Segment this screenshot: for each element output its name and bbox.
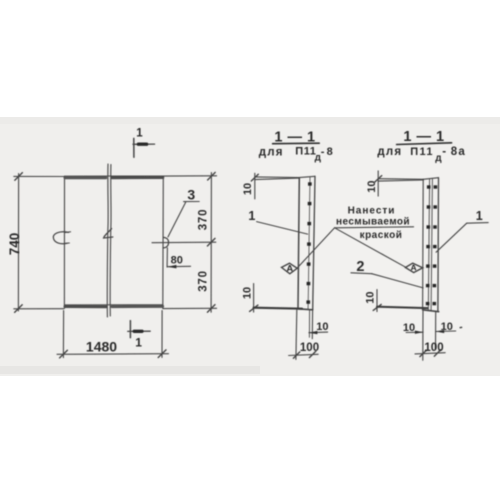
svg-text:1: 1 bbox=[136, 128, 143, 140]
svg-text:1: 1 bbox=[135, 335, 142, 349]
svg-text:100: 100 bbox=[300, 342, 319, 354]
svg-text:10: 10 bbox=[403, 322, 415, 334]
svg-text:краской: краской bbox=[360, 230, 403, 241]
svg-text:100: 100 bbox=[424, 342, 443, 354]
svg-text:для: для bbox=[259, 146, 284, 158]
svg-text:A: A bbox=[286, 264, 293, 275]
svg-text:740: 740 bbox=[7, 233, 22, 256]
svg-text:3: 3 bbox=[187, 187, 195, 203]
svg-text:- 8: - 8 bbox=[321, 146, 333, 158]
svg-text:несмываемой: несмываемой bbox=[336, 216, 410, 227]
svg-text:10: 10 bbox=[242, 183, 254, 195]
svg-text:370: 370 bbox=[198, 209, 210, 231]
svg-text:1: 1 bbox=[476, 209, 483, 223]
svg-text:1 — 1: 1 — 1 bbox=[403, 129, 444, 145]
svg-text:П11: П11 bbox=[410, 146, 434, 158]
svg-text:370: 370 bbox=[198, 270, 210, 292]
svg-text:д: д bbox=[435, 153, 442, 164]
svg-text:10: 10 bbox=[242, 287, 254, 299]
svg-text:Нанести: Нанести bbox=[348, 205, 396, 216]
svg-text:A: A bbox=[411, 262, 417, 272]
svg-text:1: 1 bbox=[248, 209, 255, 223]
svg-text:10: 10 bbox=[441, 321, 453, 333]
svg-text:П11: П11 bbox=[295, 146, 316, 158]
svg-text:80: 80 bbox=[171, 255, 183, 267]
svg-text:10: 10 bbox=[366, 180, 378, 192]
svg-text:2: 2 bbox=[356, 259, 364, 275]
svg-text:для: для bbox=[377, 146, 402, 158]
svg-text:10: 10 bbox=[365, 291, 377, 303]
svg-text:1480: 1480 bbox=[86, 338, 117, 354]
svg-text:10: 10 bbox=[316, 321, 328, 333]
svg-text:- 8а: - 8а bbox=[442, 146, 466, 158]
svg-text:1 — 1: 1 — 1 bbox=[274, 129, 315, 145]
